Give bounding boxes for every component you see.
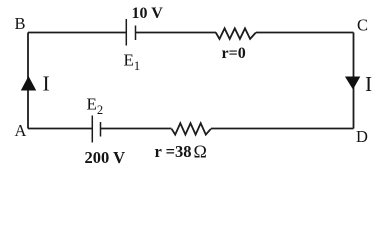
wire top-left: B corner to battery E1 long plate (28, 32, 126, 34)
current arrow right (pointing down) (345, 77, 360, 90)
wire bottom-left: battery E2 to A corner (28, 128, 92, 130)
battery E2 short plate (negative) (100, 122, 102, 137)
battery E1 long plate (positive) (125, 19, 127, 46)
current arrow left (pointing up) (21, 76, 36, 91)
svg-text:B: B (15, 14, 26, 33)
svg-text:I: I (365, 72, 372, 96)
wire top-middle: battery E1 to resistor r=0 (136, 32, 217, 34)
svg-text:D: D (356, 127, 368, 146)
wire left side: A corner up to B corner (27, 33, 29, 129)
resistor r=0 (top) (216, 28, 256, 39)
svg-text:10 V: 10 V (132, 5, 164, 22)
battery E1 short plate (negative) (135, 26, 137, 41)
svg-text:I: I (43, 72, 50, 96)
svg-text:C: C (357, 16, 368, 35)
svg-text:A: A (15, 121, 27, 140)
wire bottom-middle: resistor r=38 to battery E2 (101, 128, 172, 130)
wire bottom-right: D corner to resistor r=38 (211, 128, 354, 130)
svg-text:Ω: Ω (194, 142, 207, 162)
svg-text:r =38: r =38 (155, 142, 192, 161)
wire right side: C corner down to D corner (353, 33, 355, 129)
svg-text:E1: E1 (124, 51, 141, 74)
svg-text:r=0: r=0 (222, 45, 246, 62)
svg-text:200 V: 200 V (85, 148, 126, 167)
wire top-right: resistor r=0 to C corner (256, 32, 354, 34)
resistor r=38 ohm (bottom) (172, 123, 211, 134)
battery E2 long plate (positive) (91, 116, 93, 143)
svg-text:E2: E2 (87, 95, 104, 118)
